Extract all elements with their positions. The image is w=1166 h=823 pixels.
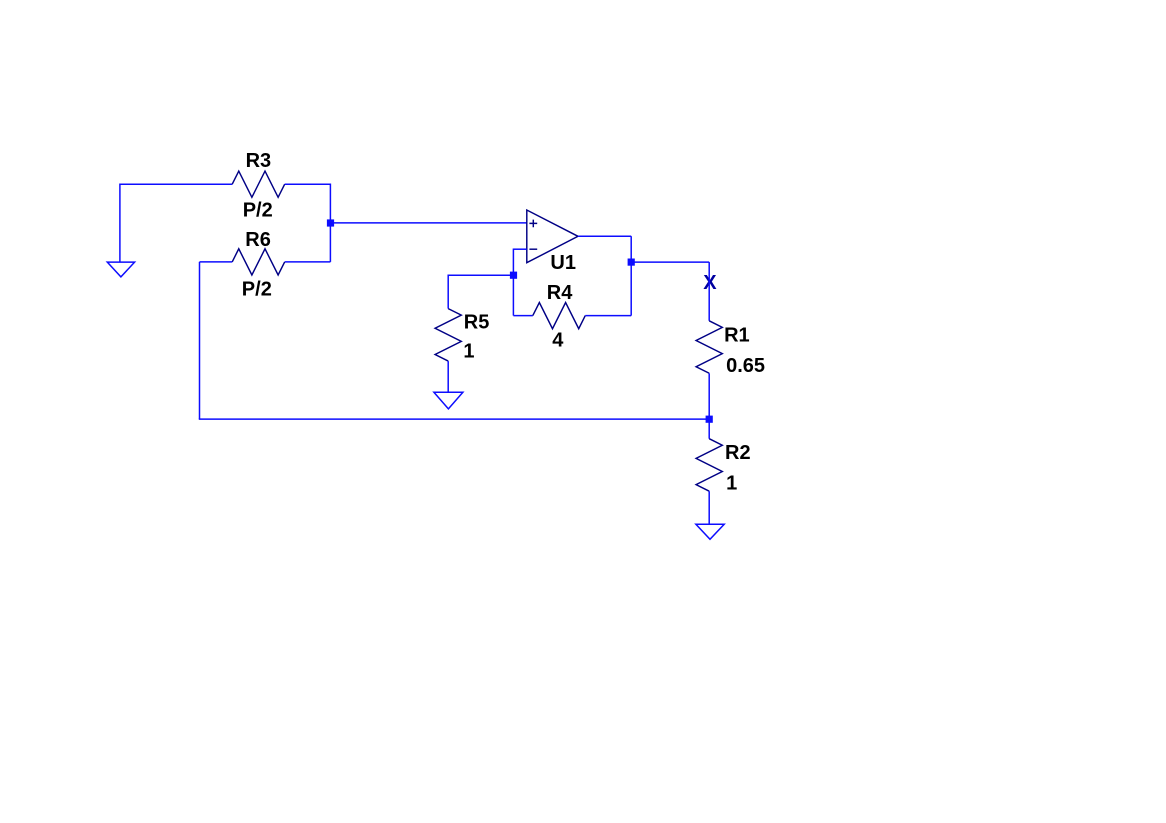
svg-text:1: 1 bbox=[463, 341, 474, 363]
resistor R6 bbox=[232, 249, 284, 275]
resistor R1 bbox=[696, 321, 722, 373]
resistor R5 bbox=[435, 309, 461, 361]
wire bottom feedback horizontal bbox=[199, 418, 709, 420]
svg-text:P/2: P/2 bbox=[243, 199, 273, 221]
wire op-amp inverting input bbox=[513, 248, 526, 250]
wire R6 right lead bbox=[285, 261, 331, 263]
wire R2 top lead bbox=[708, 419, 710, 439]
wire R3 right lead bbox=[285, 183, 331, 185]
svg-text:R1: R1 bbox=[724, 324, 750, 346]
wire R1 bottom lead bbox=[708, 373, 710, 419]
ground (middle, below R5) bbox=[434, 392, 463, 409]
wire node A to op-amp noninverting input bbox=[330, 222, 526, 224]
wire node C to output branch bbox=[631, 261, 709, 263]
svg-text:R2: R2 bbox=[725, 442, 751, 464]
wire left feedback vertical bbox=[199, 262, 201, 419]
wire output down to R1 bbox=[708, 262, 710, 321]
wire R4 right lead bbox=[585, 315, 631, 317]
node B junction (inverting input / R4 / R5) bbox=[510, 272, 517, 279]
wire R6 left lead bbox=[200, 261, 233, 263]
wire op-amp output horizontal bbox=[578, 235, 631, 237]
svg-text:0.65: 0.65 bbox=[726, 355, 765, 377]
node A junction (R3/R6 to op-amp +) bbox=[327, 219, 334, 226]
wire R4 left lead bbox=[513, 315, 532, 317]
svg-text:U1: U1 bbox=[550, 252, 576, 274]
svg-text:1: 1 bbox=[726, 473, 737, 495]
resistor R3 bbox=[232, 171, 284, 197]
svg-text:P/2: P/2 bbox=[242, 278, 272, 300]
node C junction (output) bbox=[628, 259, 635, 266]
svg-text:R5: R5 bbox=[464, 312, 490, 334]
ground (left) bbox=[107, 262, 134, 277]
wire R5 bottom lead bbox=[447, 361, 449, 392]
resistor R4 bbox=[533, 303, 585, 329]
wire vertical joining R3 and R6 right ends bbox=[329, 184, 331, 262]
wire R5 top lead bbox=[447, 275, 449, 309]
wire top-left horizontal to R3 bbox=[120, 183, 232, 185]
resistor R2 bbox=[696, 439, 722, 491]
svg-text:R6: R6 bbox=[245, 229, 271, 251]
svg-text:X: X bbox=[703, 272, 717, 294]
wire inverting input down to R4 bbox=[512, 249, 514, 316]
wire left vertical to ground bbox=[119, 184, 121, 263]
svg-text:R4: R4 bbox=[547, 282, 573, 304]
wire R2 bottom lead bbox=[708, 491, 710, 524]
ground (right, below R2) bbox=[696, 524, 724, 539]
wire op-amp output vertical bbox=[630, 236, 632, 315]
wire node B to R5 bbox=[448, 274, 513, 276]
op-amp U1 bbox=[527, 210, 578, 263]
svg-text:R3: R3 bbox=[246, 150, 272, 172]
svg-text:4: 4 bbox=[552, 330, 564, 352]
node D junction (feedback / R1 / R2) bbox=[706, 416, 713, 423]
